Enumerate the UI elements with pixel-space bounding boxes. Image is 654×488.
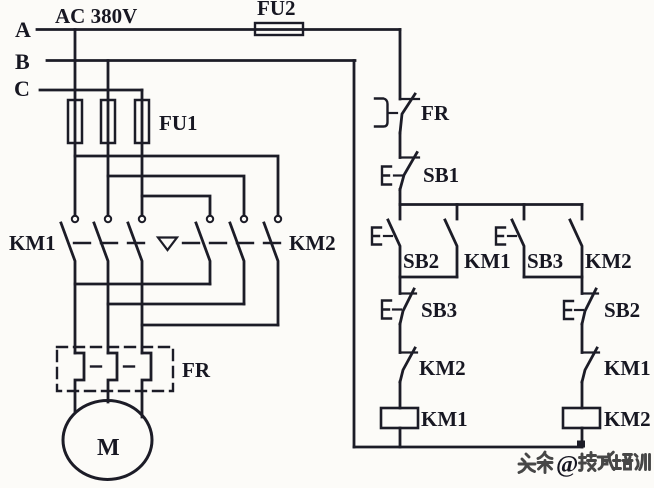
wire phase B horizontal	[47, 59, 355, 62]
coil KM1	[381, 408, 418, 428]
svg-text:SB2: SB2	[403, 249, 439, 273]
fuse FU1 pole 3	[135, 100, 149, 143]
wire KM2 NC to coil KM1	[399, 382, 402, 408]
pushbutton SB1 NC	[400, 153, 419, 190]
fuse FU1 pole 2	[101, 100, 115, 143]
pushbutton SB2 NO (start fwd)	[388, 205, 400, 278]
wire merge left pair	[400, 276, 457, 279]
contactor KM2 main contact pole 5	[230, 216, 247, 304]
thermal relay FR dashed box	[57, 347, 173, 391]
SB3 actuator E	[496, 228, 516, 245]
pushbutton SB3 NC (stop fwd branch)	[400, 289, 416, 324]
SB3 NC actuator E	[382, 301, 401, 319]
wire merge U	[75, 283, 210, 286]
wire coil KM1 to return	[399, 428, 402, 447]
wire crossover C to KM2 pole 4	[142, 196, 210, 216]
svg-text:FR: FR	[421, 101, 450, 125]
svg-text:KM1: KM1	[9, 231, 56, 255]
contactor KM2 main contact pole 4	[196, 216, 213, 284]
wire KM1 NC to coil KM2	[581, 382, 584, 408]
wire control feed drop	[399, 30, 402, 100]
motor M	[63, 401, 152, 480]
svg-text:SB3: SB3	[421, 298, 457, 322]
fuse FU2	[255, 23, 303, 35]
wire phase B drop	[107, 61, 110, 216]
contactor KM1 main contact pole 1	[61, 216, 78, 353]
wire crossover A to KM2 pole 6	[75, 156, 278, 216]
SB2 NC actuator E	[564, 301, 583, 319]
SB1 actuator E	[382, 167, 402, 185]
FR internal link dash 2	[124, 365, 134, 367]
svg-text:KM2: KM2	[419, 356, 466, 380]
contactor KM1 main contact pole 2	[94, 216, 111, 353]
svg-text:KM2: KM2	[585, 249, 632, 273]
wire FR to SB1	[399, 133, 402, 158]
wire right branch drop 1	[581, 277, 584, 294]
wire phase C horizontal	[40, 89, 142, 92]
svg-text:KM1: KM1	[421, 407, 468, 431]
svg-text:KM1: KM1	[464, 249, 511, 273]
mechanical link dashed line left	[74, 242, 152, 244]
contactor KM1 main contact pole 3	[128, 216, 145, 353]
contact FR NC (control)	[400, 94, 419, 133]
wire phase C drop	[141, 90, 144, 216]
thermal relay FR heater 3	[142, 353, 151, 417]
svg-text:SB2: SB2	[604, 298, 640, 322]
contact KM2 NC interlock	[400, 348, 417, 382]
wire left branch drop 1	[399, 277, 402, 294]
contact KM2 NO aux	[570, 205, 582, 278]
svg-text:A: A	[15, 17, 31, 42]
pushbutton SB2 NC (stop rev branch)	[582, 289, 598, 324]
svg-text:B: B	[15, 49, 30, 74]
svg-text:C: C	[14, 76, 30, 101]
FR internal link dash 1	[91, 365, 101, 367]
control bus wire	[400, 203, 582, 206]
svg-text:KM2: KM2	[289, 231, 336, 255]
thermal relay FR heater 2	[108, 353, 117, 402]
svg-text:SB1: SB1	[423, 163, 459, 187]
wire merge right pair	[524, 276, 582, 279]
wire return left vertical	[353, 61, 356, 448]
wire return bottom horizontal	[354, 446, 582, 449]
wire merge V	[108, 303, 244, 306]
svg-text:AC 380V: AC 380V	[55, 4, 137, 28]
watermark 头条 @技成培训	[519, 452, 650, 478]
SB2 actuator E	[372, 228, 392, 245]
svg-text:M: M	[97, 435, 120, 461]
coil KM2	[563, 408, 600, 428]
pushbutton SB3 NO (start rev)	[512, 205, 524, 278]
contactor KM2 main contact pole 6	[264, 216, 281, 325]
wire phase A horizontal	[37, 28, 400, 31]
wire SB2 NC to KM1 NC	[581, 324, 584, 353]
mechanical link dashed line right	[183, 242, 281, 244]
svg-text:SB3: SB3	[527, 249, 563, 273]
wire SB1 to bus	[399, 190, 402, 205]
svg-text:FR: FR	[182, 358, 211, 382]
contact KM1 NO aux	[445, 205, 457, 278]
wire coil KM2 to return	[581, 428, 584, 447]
wire crossover B to KM2 pole 5	[108, 176, 244, 216]
svg-text:KM1: KM1	[604, 356, 651, 380]
wire phase A drop	[74, 30, 77, 216]
svg-text:FU1: FU1	[159, 111, 198, 135]
svg-text:KM2: KM2	[604, 407, 651, 431]
contact KM1 NC interlock	[582, 348, 599, 382]
mechanical link triangle	[158, 238, 177, 251]
svg-text:@: @	[556, 452, 578, 478]
junction blob at return corner	[577, 441, 585, 448]
thermal relay FR heater 1	[75, 353, 84, 412]
svg-text:FU2: FU2	[257, 0, 296, 20]
fuse FU1 pole 1	[68, 100, 82, 143]
FR trip hook symbol	[375, 99, 397, 127]
wire SB3 NC to KM2 NC	[399, 324, 402, 353]
wire merge W	[142, 324, 278, 327]
